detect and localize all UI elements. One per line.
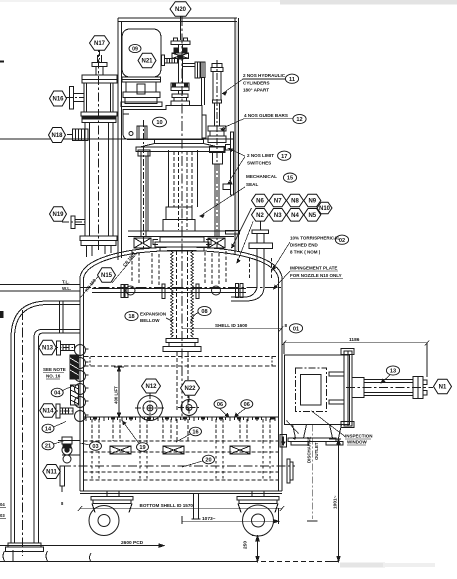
long platform level line — [0, 138, 234, 140]
nozzle tag N22 — [181, 381, 200, 396]
bottom outlet stub — [192, 494, 201, 520]
leader 13 — [381, 375, 390, 383]
svg-text:1001~: 1001~ — [333, 495, 339, 509]
svg-text:SWITCHES: SWITCHES — [247, 161, 271, 166]
leader 14 — [54, 422, 67, 428]
svg-text:N22: N22 — [184, 386, 196, 392]
svg-text:01: 01 — [293, 326, 299, 332]
svg-text:19: 19 — [139, 445, 145, 451]
wheels castors — [89, 491, 279, 536]
vessel bottom shell walls ID1570 — [80, 356, 282, 494]
left edge marks — [0, 61, 4, 319]
vessel top shell walls ID1600 — [80, 276, 282, 356]
svg-text:2 NOS HYDRAULIC: 2 NOS HYDRAULIC — [243, 73, 286, 78]
expansion bellow — [171, 251, 194, 338]
dashed legs of frame onto dome — [132, 250, 226, 285]
vessel shell flange band dashed — [84, 357, 278, 367]
leaders limit switches — [228, 149, 246, 185]
svg-text:N8: N8 — [291, 199, 299, 205]
svg-text:SEAL: SEAL — [246, 182, 258, 187]
svg-text:20: 20 — [205, 458, 211, 464]
svg-text:16: 16 — [192, 430, 198, 436]
svg-text:N4: N4 — [291, 213, 299, 219]
svg-text:15: 15 — [287, 176, 293, 182]
agitator shaft top yoke — [171, 38, 190, 59]
left wall couplings circles — [75, 345, 89, 422]
hydraulic cylinder right — [208, 64, 226, 249]
inspection window box — [285, 349, 355, 428]
svg-text:8 THK ( NOM ): 8 THK ( NOM ) — [290, 250, 321, 255]
balloon 21 — [42, 441, 54, 450]
svg-text:MECHANICAL: MECHANICAL — [246, 174, 277, 179]
balloon 16 — [190, 427, 202, 436]
svg-text:4 NOS GUIDE BARS: 4 NOS GUIDE BARS — [244, 113, 288, 118]
condenser column body — [80, 43, 117, 257]
motor base stack — [121, 77, 162, 107]
balloon 13 — [386, 366, 399, 375]
floor line — [0, 561, 339, 563]
balloon 08 — [198, 306, 211, 315]
balloon 19 — [137, 443, 149, 452]
svg-text:WINDOW: WINDOW — [347, 440, 367, 445]
limit switch channel — [223, 132, 234, 195]
dimension: shell id 1600 — [182, 327, 283, 332]
leader 16 — [176, 434, 191, 442]
svg-text:N10: N10 — [319, 206, 331, 212]
balloon 06 left — [214, 400, 226, 409]
balloon 02 — [335, 235, 348, 244]
seal support platform — [128, 151, 234, 237]
svg-text:18: 18 — [128, 314, 134, 320]
svg-text:2600 PCD: 2600 PCD — [121, 540, 144, 546]
400 LIFT dimension — [114, 367, 124, 417]
support frame — [118, 18, 240, 260]
svg-text:06: 06 — [244, 402, 250, 408]
svg-text:N9: N9 — [308, 199, 316, 205]
svg-text:BELLOW: BELLOW — [140, 318, 160, 323]
balloon 15 — [283, 173, 296, 182]
svg-text:N16: N16 — [52, 97, 64, 103]
leader mechanical seal — [200, 187, 245, 218]
svg-text:N3: N3 — [274, 213, 282, 219]
bellow bottom flange — [163, 339, 201, 352]
leader 21 — [54, 441, 66, 445]
support bracket plates below plate — [110, 446, 250, 454]
right wall side nozzle at 465 — [287, 459, 293, 483]
balloon 03 — [90, 442, 102, 451]
leader 19 — [123, 421, 140, 444]
svg-text:BOTTOM SHELL ID 1570: BOTTOM SHELL ID 1570 — [140, 503, 194, 508]
svg-text:180° APART: 180° APART — [243, 88, 269, 93]
leader impingement plate — [274, 271, 291, 289]
svg-text:W.L.: W.L. — [62, 286, 71, 291]
dome radius lines CR KR — [80, 252, 138, 298]
svg-text:CYLINDERS: CYLINDERS — [243, 81, 270, 86]
svg-text:SEE NOTE: SEE NOTE — [43, 367, 66, 372]
nozzle tag N20 — [170, 2, 191, 17]
dimension: 250 — [252, 536, 263, 562]
nozzle N14 flange — [52, 404, 74, 418]
N22 nozzle circles on plate — [178, 396, 200, 418]
bottom outlet centerline — [62, 465, 295, 467]
scan gray strip bottom right — [340, 563, 385, 568]
bottom left drain valve — [58, 437, 80, 463]
svg-text:1186: 1186 — [349, 337, 360, 343]
shaft guide tube between gearbox and seal — [169, 150, 198, 230]
leader N2 nozzle — [260, 222, 262, 231]
leader 20 — [182, 461, 203, 467]
svg-text:14: 14 — [45, 427, 52, 433]
nozzle tag N15 — [98, 268, 116, 283]
svg-text:FOR NOZZLE N10 ONLY: FOR NOZZLE N10 ONLY — [290, 273, 342, 278]
svg-text:N13: N13 — [42, 346, 54, 352]
gearbox support pedestal — [136, 140, 224, 152]
svg-text:SHELL ID 1600: SHELL ID 1600 — [215, 323, 248, 328]
nozzle N18 coupling — [67, 129, 88, 141]
nozzle N11 below — [60, 466, 65, 492]
svg-text:12: 12 — [296, 117, 302, 123]
leader 04 — [63, 386, 74, 391]
internal header pipe at tangent level — [92, 284, 246, 299]
nozzle tag N11 — [43, 465, 61, 479]
svg-text:10: 10 — [156, 120, 162, 126]
balloon 10 — [153, 117, 167, 127]
nozzle tag N18 — [49, 128, 66, 143]
leader inspection window — [312, 411, 346, 437]
leader N17 — [99, 50, 101, 62]
jacket hatch strip — [70, 355, 79, 405]
svg-text:N18: N18 — [51, 133, 63, 139]
svg-text:04: 04 — [0, 502, 5, 507]
underlines — [0, 271, 371, 519]
N12 nozzle circles on plate — [135, 393, 165, 421]
svg-text:N15: N15 — [101, 273, 113, 279]
svg-text:13: 13 — [390, 369, 396, 375]
balloon 06 right — [241, 400, 253, 409]
svg-text:08: 08 — [201, 309, 207, 315]
leader guide bars — [221, 119, 294, 132]
dimension: 1186 — [282, 341, 429, 378]
svg-text:N19: N19 — [52, 212, 64, 218]
svg-text:DISHED END: DISHED END — [290, 243, 319, 248]
scan gray strip top right — [280, 0, 457, 5]
nozzle tag N14 — [40, 404, 57, 418]
balloon 14 — [42, 424, 54, 433]
svg-text:250: 250 — [243, 541, 249, 549]
leader dished end — [273, 242, 291, 270]
svg-text:17: 17 — [281, 154, 287, 160]
dimension: 2600 PCD — [0, 544, 164, 547]
balloon 01 — [289, 324, 302, 333]
shaft couplings — [171, 48, 190, 106]
tangent line and water line full width — [0, 285, 282, 292]
leader N20 — [180, 16, 182, 40]
svg-text:04: 04 — [54, 391, 61, 397]
svg-text:OUTLET: OUTLET — [314, 442, 319, 460]
svg-text:400 LIFT: 400 LIFT — [114, 386, 119, 404]
balloon 17 — [278, 151, 291, 160]
svg-text:8: 8 — [285, 323, 288, 328]
nozzle N16 flange — [65, 87, 84, 110]
leader hydraulic cylinders — [223, 79, 287, 95]
dimension: bottom shell id 1570 — [78, 506, 284, 511]
shaft side arm and flange — [183, 62, 206, 105]
svg-text:EXPANSION: EXPANSION — [140, 312, 166, 317]
svg-text:2 NOS LIMIT: 2 NOS LIMIT — [247, 153, 274, 158]
svg-text:N6: N6 — [256, 199, 264, 205]
svg-text:10% TORRISPHERICAL: 10% TORRISPHERICAL — [290, 236, 340, 241]
nozzle N13 flange — [52, 341, 75, 355]
balloon 09 — [129, 44, 141, 52]
leader expansion bellow — [166, 318, 172, 321]
svg-text:11: 11 — [289, 77, 295, 83]
svg-text:N21: N21 — [141, 59, 153, 65]
condenser column top pipe to N17 — [92, 55, 107, 75]
dome nozzle with internal elbow pipe N10 — [231, 222, 273, 301]
filter support gussets hidden — [92, 419, 270, 480]
motor to shaft connect line N21 stub — [162, 55, 178, 66]
discharge outlet arrow — [280, 421, 318, 522]
svg-text:21: 21 — [45, 444, 51, 450]
svg-text:N14: N14 — [42, 409, 54, 415]
nozzle tag N19 — [50, 207, 67, 222]
dome center nozzle flange cluster — [153, 237, 211, 251]
svg-text:IMPINGEMENT PLATE: IMPINGEMENT PLATE — [290, 266, 337, 271]
balloon 04 — [51, 388, 63, 397]
svg-text:N5: N5 — [308, 213, 316, 219]
svg-text:N12: N12 — [145, 384, 157, 390]
balloon 18 — [125, 311, 138, 320]
nozzle N19 flange — [62, 216, 85, 229]
gearbox U-10 — [123, 106, 206, 140]
svg-text:N20: N20 — [175, 7, 187, 13]
dimension: 1001 — [329, 439, 341, 562]
svg-text:03: 03 — [92, 444, 98, 450]
svg-text:N11: N11 — [46, 470, 57, 476]
nozzle tag N1 — [434, 379, 452, 394]
svg-text:NO. 16: NO. 16 — [46, 374, 61, 379]
svg-text:09: 09 — [132, 46, 138, 52]
vessel dome torispherical head — [80, 247, 282, 278]
discharge pipe to N1 — [346, 377, 433, 399]
svg-text:N7: N7 — [274, 199, 282, 205]
svg-text:03: 03 — [0, 513, 5, 518]
svg-text:T.L.: T.L. — [62, 280, 70, 285]
svg-text:N2: N2 — [256, 213, 264, 219]
svg-text:N17: N17 — [94, 41, 106, 47]
agitator shaft centerline — [181, 16, 183, 420]
guide bar left — [134, 150, 151, 248]
nozzle tag N12 — [142, 379, 161, 393]
nozzle tag N16 — [50, 91, 67, 106]
hidden lines below filter plate — [84, 441, 279, 480]
nozzle tag cluster N6-N10 N2-N5 — [252, 194, 269, 207]
balloon 20 — [203, 455, 215, 464]
left vapour duct with bend — [6, 301, 81, 556]
svg-text:N1: N1 — [439, 385, 447, 391]
svg-text:INSPECTION: INSPECTION — [345, 434, 373, 439]
leader 03 — [80, 443, 90, 445]
leader 06 pair — [220, 409, 246, 418]
shaft below bellow hidden — [177, 352, 188, 441]
svg-text:06: 06 — [217, 402, 223, 408]
nozzle tag N13 — [39, 340, 57, 355]
leader 08 — [191, 313, 199, 324]
guide bar centerlines — [144, 60, 218, 250]
leaders hex cluster to dome — [232, 208, 254, 263]
nozzle tag N17 — [90, 36, 110, 51]
filter plate line with ticks — [84, 417, 279, 421]
motor body — [122, 29, 161, 77]
balloon 11 — [285, 74, 298, 83]
floor symbols bottom left — [3, 550, 91, 562]
svg-text:DISCHARGE: DISCHARGE — [307, 437, 312, 463]
balloon 12 — [293, 114, 306, 123]
mechanical seal box — [163, 207, 195, 231]
nozzle tag N21 — [138, 53, 156, 68]
dimension: 1073 — [182, 508, 279, 524]
svg-text:1073~: 1073~ — [202, 516, 216, 522]
window support bracket — [288, 425, 343, 446]
